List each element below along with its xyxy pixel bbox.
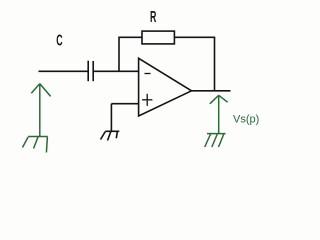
svg-text:R: R (150, 7, 157, 26)
svg-text:Vs(p): Vs(p) (233, 113, 259, 125)
svg-text:C: C (56, 31, 62, 50)
